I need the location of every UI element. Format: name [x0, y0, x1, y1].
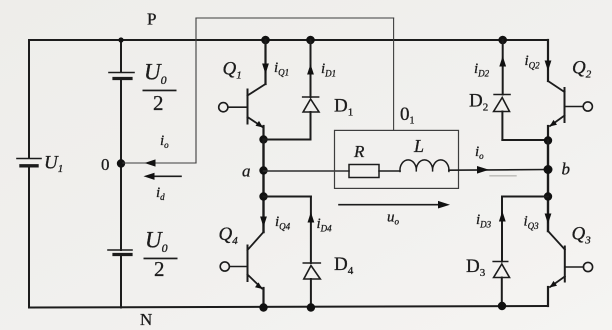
svg-text:N: N	[140, 310, 152, 329]
wire capacitor branch bottom	[120, 255, 122, 308]
wire left source branch lower	[28, 166, 30, 308]
wire D3 branch top	[502, 196, 548, 198]
current arrow io	[477, 166, 489, 174]
wire D2 branch upper	[502, 40, 504, 95]
resistor R	[349, 165, 379, 178]
current arrow iD2	[499, 56, 506, 67]
label D4	[334, 254, 354, 277]
underline artifact	[490, 175, 516, 177]
capacitor C2 lower U0/2	[108, 250, 132, 255]
diode D4	[303, 263, 320, 279]
label Q4	[219, 224, 239, 247]
node junction Q1 emitter / D1	[259, 135, 267, 143]
label Q2	[572, 58, 592, 81]
wire D1 branch upper	[310, 40, 312, 97]
svg-text:P: P	[147, 10, 156, 29]
node junction Q4 emitter bottom	[259, 303, 267, 311]
wire R to L	[379, 170, 400, 172]
node a	[242, 162, 268, 181]
wire D1 cathode down	[310, 112, 312, 140]
wire L to node b	[449, 169, 548, 172]
wire leg b vertical	[547, 141, 549, 232]
label iD4	[317, 216, 333, 234]
label iD2	[474, 61, 490, 79]
current arrow iQ4	[260, 217, 267, 228]
current arrow iQ3	[545, 214, 552, 225]
label Q1	[223, 59, 242, 82]
wire D2 to Q2 emitter	[502, 139, 548, 141]
wire D4 cathode down	[310, 279, 312, 308]
wire Q2 collector from rail	[547, 40, 549, 81]
inductor L	[400, 160, 449, 172]
node junction top of D2 branch	[498, 36, 507, 45]
capacitor C1 upper U0/2	[109, 73, 134, 79]
battery U1	[17, 153, 63, 176]
svg-text:0: 0	[101, 155, 110, 174]
wire D4 branch vertical	[310, 197, 312, 264]
label iQ1	[274, 60, 289, 78]
node junction D3 bottom	[498, 302, 506, 310]
wire node a to load	[264, 170, 350, 172]
wire capacitor branch middle	[120, 79, 122, 251]
svg-text:2: 2	[153, 91, 164, 115]
label iQ2	[525, 53, 541, 71]
label Q3	[572, 224, 592, 247]
diode D3	[493, 262, 509, 278]
wire Q3 emitter down	[547, 287, 549, 306]
label iQ4	[275, 214, 291, 232]
node junction Q2 emitter	[544, 136, 552, 144]
label D1	[334, 96, 353, 119]
wire Q1 collector	[264, 40, 266, 84]
svg-text:L: L	[413, 136, 424, 156]
node junction top of D1 branch	[306, 36, 315, 45]
label U0/2 lower	[144, 228, 178, 282]
current arrow iD4	[308, 212, 315, 223]
current arrow iD1	[307, 64, 314, 75]
node junction below a	[259, 192, 267, 200]
label iD1	[321, 61, 336, 79]
transistor Q2	[548, 81, 592, 127]
node junction capacitor branch / top rail	[118, 37, 123, 42]
wire D1 anode to emitter node	[264, 139, 311, 141]
label 01 node	[400, 104, 415, 127]
node 0	[101, 155, 125, 174]
label D2	[469, 91, 488, 114]
node junction below b	[544, 192, 552, 200]
current arrow iD3	[499, 211, 506, 222]
node junction top of Q1 branch	[261, 36, 270, 45]
wire D3 branch vertical	[501, 197, 503, 262]
transistor Q4	[220, 232, 263, 289]
wire leg a vertical	[262, 140, 264, 233]
label U0/2 upper	[143, 60, 177, 116]
wire bottom rail N	[29, 306, 548, 308]
wire D2 cathode down	[501, 112, 503, 141]
wire D4 branch top	[264, 196, 311, 198]
current arrow iQ1	[262, 64, 269, 75]
label iQ3	[524, 214, 540, 232]
diode D1	[303, 97, 319, 112]
label D3	[466, 256, 486, 279]
wire left source branch upper	[28, 40, 30, 158]
wire Q4 emitter down	[262, 288, 264, 308]
label i0 upper	[160, 133, 169, 150]
diode D2	[494, 95, 510, 112]
node b	[544, 160, 571, 179]
svg-text:a: a	[242, 162, 251, 181]
node junction D4 bottom	[307, 303, 315, 311]
current arrow on path (left)	[145, 159, 156, 166]
label id	[156, 185, 165, 202]
svg-text:2: 2	[154, 257, 165, 281]
current arrow id (floating)	[144, 173, 182, 180]
load box	[335, 130, 459, 188]
svg-text:b: b	[562, 160, 571, 179]
wire top rail P	[29, 39, 548, 41]
wire Q1 emitter down	[262, 126, 264, 140]
svg-text:R: R	[353, 142, 365, 161]
label io	[475, 144, 484, 161]
wire capacitor branch top	[120, 40, 122, 72]
transistor Q3	[548, 231, 593, 288]
wire current path 0 to load (thin loop)	[123, 18, 394, 163]
label uo	[387, 210, 400, 227]
label iD3	[476, 212, 492, 230]
transistor Q1	[219, 84, 266, 128]
wire Q2 emitter down	[547, 126, 549, 141]
wire D3 cathode down	[501, 278, 503, 307]
current arrow iQ2	[545, 61, 552, 72]
voltage arrow uo	[339, 201, 450, 209]
